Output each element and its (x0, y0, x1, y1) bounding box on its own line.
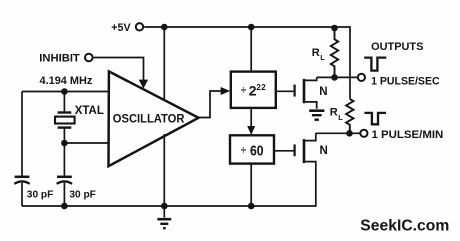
svg-text:L: L (338, 113, 343, 122)
svg-text:22: 22 (256, 83, 266, 92)
svg-text:÷: ÷ (241, 86, 247, 97)
svg-text:÷: ÷ (241, 146, 247, 157)
svg-text:XTAL: XTAL (75, 105, 104, 117)
junction node on 5V rail at divider line (248, 24, 255, 31)
terminal output 1 PULSE/SEC (358, 74, 365, 81)
op-amp oscillator triangle (109, 71, 199, 166)
pulse icon 1 (364, 58, 386, 71)
arrowhead div222 to div60 (247, 126, 255, 135)
wire node1 output (317, 76, 357, 78)
wire +5V rail (144, 27, 350, 99)
transistor Q2 N-MOSFET (295, 133, 316, 207)
wire div60 to bottom rail (250, 165, 252, 207)
junction node output2 (346, 130, 353, 137)
junction node on 5V rail at resistor R_L1 (331, 25, 338, 32)
wire apex to divider (199, 91, 226, 118)
pulse icon 2 (364, 113, 386, 124)
wire cap1 bottom lead (21, 183, 23, 206)
wire cap2 bottom lead (63, 183, 65, 206)
terminal INHIBIT (85, 54, 93, 62)
wire inhibit horizontal and down (94, 58, 144, 82)
arrowhead inhibit into oscillator (139, 80, 148, 89)
wire ground main lead (163, 206, 165, 218)
svg-text:OSCILLATOR: OSCILLATOR (113, 112, 185, 126)
svg-text:1 PULSE/SEC: 1 PULSE/SEC (371, 75, 440, 87)
svg-text:+5V: +5V (111, 22, 131, 34)
wire crystal top lead (63, 92, 65, 112)
wire top node to oscillator (22, 91, 109, 93)
junction node crystal top (61, 88, 68, 95)
svg-text:30 pF: 30 pF (27, 189, 54, 200)
svg-text:30 pF: 30 pF (69, 189, 96, 200)
wire crystal bottom lead (63, 128, 65, 143)
junction node bottom rail ground (161, 203, 168, 210)
wire oscillator supply vertical upper (163, 27, 165, 100)
terminal output 1 PULSE/MIN (360, 130, 367, 137)
wire oscillator supply vertical lower (163, 134, 165, 206)
divider block U2 div 60 (230, 135, 274, 163)
crystal XTAL (55, 113, 75, 128)
wire div222 to div60 (250, 109, 252, 129)
wire div60 to gate2 (275, 150, 294, 152)
resistor R_L2 (346, 99, 353, 133)
svg-text:SeekIC.com: SeekIC.com (360, 218, 449, 235)
svg-text:60: 60 (250, 144, 264, 160)
svg-text:R: R (330, 107, 338, 119)
wire node2 to oscillator (64, 142, 108, 144)
terminal +5V (136, 23, 143, 30)
divider block U1 div 2^22 (231, 72, 276, 108)
svg-text:INHIBIT: INHIBIT (39, 53, 80, 65)
junction node output1 (331, 74, 338, 81)
ground main (157, 219, 171, 228)
transistor Q1 N-MOSFET (295, 77, 317, 108)
capacitor C2 30pF (57, 177, 72, 184)
arrowhead into div222 (221, 87, 231, 95)
wire node2 output (316, 132, 360, 134)
junction node on 5V rail at oscillator line (161, 24, 168, 31)
svg-text:N: N (320, 145, 328, 157)
ground under Q1 (309, 111, 324, 120)
capacitor C1 30pF (14, 177, 29, 184)
svg-text:L: L (320, 53, 325, 62)
wire cap2 top lead (63, 143, 65, 176)
junction node bottom rail div60 (248, 203, 255, 210)
svg-text:R: R (312, 47, 320, 59)
wire bottom rail (22, 205, 316, 207)
wire div222 to gate1 (277, 90, 294, 92)
wire left cap1 lead (21, 92, 23, 176)
junction node bottom rail cap2 (61, 203, 68, 210)
svg-text:OUTPUTS: OUTPUTS (371, 41, 423, 53)
junction node crystal bottom (61, 140, 68, 147)
svg-text:1 PULSE/MIN: 1 PULSE/MIN (372, 129, 444, 141)
svg-text:4.194 MHz: 4.194 MHz (40, 75, 93, 87)
resistor R_L1 (331, 28, 338, 77)
svg-text:N: N (319, 86, 327, 98)
wire 5V to div222 (250, 27, 252, 71)
